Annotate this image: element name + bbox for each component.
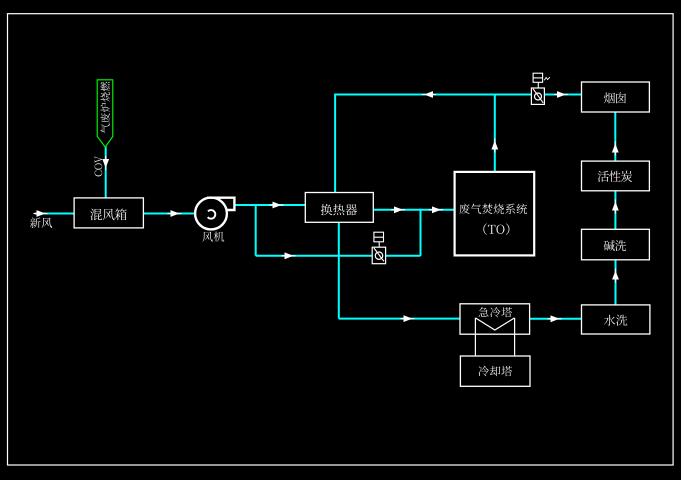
label: 烟囱 <box>604 92 626 103</box>
arrow: into heat exchanger <box>270 204 284 206</box>
arrow: into water wash <box>548 318 562 320</box>
box: 混风箱 mixing box <box>74 198 143 228</box>
wire: mix box to fan <box>143 213 195 215</box>
wire: TO outlet riser <box>494 95 496 172</box>
valve V2 (bypass damper) <box>372 232 385 264</box>
box: 烟囱 chimney <box>582 82 650 112</box>
box: 碱洗 alkali wash <box>582 229 650 259</box>
arrow: to quench tower <box>401 318 415 320</box>
arrow: VOC down <box>105 156 107 170</box>
wire: fan outlet to heat exchanger <box>234 204 306 206</box>
arrow: TO exhaust up <box>494 139 496 153</box>
arrow: into chimney <box>554 94 568 96</box>
wire: fresh air inlet to mix box <box>35 213 74 215</box>
box: 冷却塔 cooling tower <box>460 356 530 386</box>
box: 废气焚烧系统 TO incinerator <box>455 172 535 256</box>
wire: quench tower to water wash <box>530 318 582 320</box>
box: 活性炭 activated carbon <box>582 161 650 191</box>
label: 换热器 <box>321 204 357 215</box>
pipe: quench to cooling tower right <box>514 318 516 356</box>
arrow: into fan <box>168 213 182 215</box>
wire: heat exchanger to TO <box>373 209 454 211</box>
label: 废气焚烧系统 <box>459 204 527 214</box>
label: 碱洗 <box>604 240 626 251</box>
wire: activated carbon up to chimney <box>614 112 616 161</box>
arrow: bypass flow <box>282 255 296 257</box>
node: source gas banner (green) <box>97 80 113 147</box>
wire: bypass drop <box>255 204 257 256</box>
label: 活性炭 <box>598 171 633 182</box>
arrow: into chimney bottom <box>614 142 616 156</box>
fan 风机 symbol <box>195 198 234 230</box>
wire: TO exhaust header to chimney <box>335 94 582 96</box>
valve V1 (damper before chimney) <box>531 73 550 104</box>
box: 水洗 water wash <box>582 305 650 334</box>
label: 急冷塔 <box>479 307 512 317</box>
wire: VOC feed down to mix box <box>105 147 107 198</box>
spray V inside quench tower <box>475 318 514 330</box>
label: banner text 燃烧炉废气 (vertical) <box>100 82 109 134</box>
label: （TO） <box>483 223 509 235</box>
label: 水洗 <box>604 315 627 326</box>
arrow: fresh air in <box>34 213 48 215</box>
label: 冷却塔 <box>478 366 512 376</box>
box: 换热器 heat exchanger <box>305 193 373 223</box>
label: 风机 <box>202 231 224 241</box>
wire: heat exchanger hot side down <box>338 222 340 318</box>
arrow: into activated carbon <box>614 200 616 214</box>
wire: bypass horizontal run <box>256 255 421 257</box>
label: 新风 <box>30 217 52 228</box>
arrow: heat exchanger outlet <box>391 209 405 211</box>
arrow: exhaust to heat exchanger hot side <box>422 94 436 96</box>
wire: water wash up to alkali wash <box>615 259 617 305</box>
wire: header down to heat exchanger hot side <box>334 94 336 193</box>
arrow: into TO <box>429 209 443 211</box>
arrow: into alkali wash <box>615 269 617 283</box>
wire: to quench tower <box>339 318 460 320</box>
box: 急冷塔 quench tower <box>460 304 530 334</box>
wire: alkali wash up to activated carbon <box>614 191 616 230</box>
wire: bypass rise to TO feed <box>420 209 422 256</box>
label: 混风箱 <box>90 209 127 221</box>
pipe: quench to cooling tower left <box>474 318 476 356</box>
label: VOC (vertical) <box>95 156 103 176</box>
